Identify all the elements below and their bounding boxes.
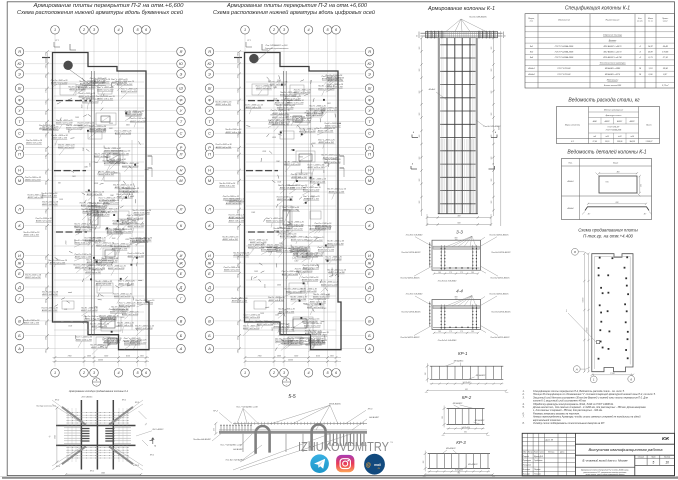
svg-text:238,96: 238,96 — [616, 141, 622, 143]
svg-text:3000: 3000 — [132, 221, 136, 223]
svg-text:А500С №8 ш.150: А500С №8 ш.150 — [278, 329, 295, 332]
svg-text:Сборочные единицы: Сборочные единицы — [603, 34, 623, 37]
svg-text:В: В — [368, 319, 371, 323]
svg-text:А500С №10 ш.200: А500С №10 ш.200 — [107, 267, 125, 270]
svg-text:Ж: Ж — [17, 262, 22, 266]
svg-text:А: А — [575, 367, 578, 371]
svg-text:И: И — [18, 254, 21, 258]
svg-text:5000: 5000 — [294, 356, 298, 358]
svg-text:165: 165 — [471, 331, 474, 333]
svg-text:180: 180 — [425, 372, 427, 375]
svg-text:КЖ: КЖ — [662, 436, 670, 441]
svg-text:5000: 5000 — [104, 356, 108, 358]
svg-text:А500С №8 ш.150: А500С №8 ш.150 — [24, 276, 41, 279]
svg-text:А500С №8 ш.150: А500С №8 ш.150 — [268, 299, 285, 302]
svg-text:Ф: Ф — [208, 99, 211, 103]
svg-text:200: 200 — [419, 201, 421, 205]
svg-text:1500: 1500 — [312, 143, 316, 145]
svg-text:поз.: поз. — [530, 21, 534, 23]
svg-text:1240: 1240 — [84, 166, 88, 169]
svg-text:1780: 1780 — [45, 256, 47, 260]
svg-text:А500С №12 ш.150: А500С №12 ш.150 — [289, 187, 307, 190]
svg-text:1780: 1780 — [237, 288, 239, 292]
svg-text:Я: Я — [207, 50, 211, 54]
svg-text:ГОСТ Р-52544-2006: ГОСТ Р-52544-2006 — [606, 128, 622, 131]
svg-text:500: 500 — [77, 230, 80, 232]
svg-text:П: П — [368, 153, 371, 157]
svg-text:200: 200 — [491, 113, 493, 117]
svg-text:А500С №8 ш.150: А500С №8 ш.150 — [223, 269, 240, 272]
svg-text:А500С №10 ш.200: А500С №10 ш.200 — [65, 127, 83, 130]
svg-text:А240: А240 — [592, 120, 597, 123]
svg-text:Э: Э — [208, 72, 211, 76]
svg-text:3800: 3800 — [237, 148, 239, 152]
svg-text:Армирование колонны К-1: Армирование колонны К-1 — [427, 6, 495, 12]
svg-text:Горбатов: Горбатов — [534, 460, 542, 462]
svg-text:14,87: 14,87 — [648, 45, 654, 48]
svg-text:4: 4 — [117, 28, 119, 32]
svg-text:А500С №8 ш.150: А500С №8 ш.150 — [23, 234, 40, 237]
svg-text:Н: Н — [368, 169, 371, 173]
svg-text:А500С №8 ш.150: А500С №8 ш.150 — [314, 227, 331, 230]
svg-text:3000: 3000 — [126, 125, 130, 127]
svg-text:18,96: 18,96 — [663, 68, 669, 70]
svg-text:А500С №8 ш.150: А500С №8 ш.150 — [272, 112, 289, 115]
svg-text:3000: 3000 — [116, 326, 120, 328]
svg-text:чание: чание — [663, 21, 668, 23]
svg-text:2000: 2000 — [332, 268, 334, 273]
svg-text:Ю: Ю — [208, 62, 212, 66]
svg-text:Укладку сеток поддерживать отн: Укладку сеток поддерживать относительным… — [533, 422, 606, 425]
svg-text:Э: Э — [180, 72, 183, 76]
svg-text:А500С №12 ш.150: А500С №12 ш.150 — [242, 327, 260, 330]
svg-text:ГОСТ Р-52544-2006: ГОСТ Р-52544-2006 — [555, 56, 574, 59]
svg-text:А500С №8 ш.150: А500С №8 ш.150 — [215, 103, 232, 106]
svg-text:А500С №12 ш.150: А500С №12 ш.150 — [302, 267, 320, 270]
svg-text:КР-1: КР-1 — [90, 471, 94, 473]
svg-text:Усиление продавливания: Усиление продавливания — [265, 47, 290, 50]
svg-text:Схема продавливания плиты: Схема продавливания плиты — [578, 227, 638, 232]
svg-text:А500С №8 ш.150: А500С №8 ш.150 — [97, 98, 114, 101]
svg-text:КР-3: КР-3 — [456, 440, 466, 445]
svg-text:8п1: 8п1 — [530, 46, 533, 48]
svg-text:3800: 3800 — [237, 52, 239, 56]
svg-text:Наименование: Наименование — [606, 20, 621, 22]
svg-text:Ю: Ю — [368, 62, 372, 66]
svg-text:Схема расположения нижней арма: Схема расположения нижней арматуры вдоль… — [213, 9, 375, 16]
svg-text:А500С №12 ш.150: А500С №12 ш.150 — [326, 242, 344, 245]
svg-text:Д: Д — [367, 285, 371, 289]
svg-text:180: 180 — [442, 416, 444, 419]
svg-text:№12: №12 — [605, 135, 609, 138]
svg-text:Лист: Лист — [533, 452, 539, 454]
svg-text:Л: Л — [179, 208, 183, 212]
svg-text:А500С №8 ш.150: А500С №8 ш.150 — [228, 216, 245, 219]
svg-text:А500С №8 ш.150: А500С №8 ш.150 — [309, 180, 326, 183]
svg-text:-: - — [286, 383, 287, 387]
svg-text:А500С №10 ш.200: А500С №10 ш.200 — [290, 238, 308, 241]
svg-text:во шт.: во шт. — [637, 21, 643, 23]
svg-text:Поз.1 Ø16А500С ш.150: Поз.1 Ø16А500С ш.150 — [266, 44, 289, 47]
svg-text:2600: 2600 — [45, 226, 47, 231]
svg-text:3040: 3040 — [236, 181, 239, 185]
svg-text:3000: 3000 — [117, 339, 119, 343]
svg-text:Дипл. ЗК: Дипл. ЗК — [545, 439, 554, 441]
svg-text:180: 180 — [423, 461, 425, 464]
svg-text:Д: Д — [179, 285, 183, 289]
svg-text:Дата: Дата — [559, 452, 564, 454]
svg-text:40х8п1: 40х8п1 — [567, 180, 573, 183]
svg-text:Ø№8 А240С: Ø№8 А240С — [328, 402, 341, 405]
svg-text:200: 200 — [419, 157, 421, 161]
svg-text:200: 200 — [491, 69, 493, 73]
svg-text:600: 600 — [458, 223, 461, 225]
svg-text:165: 165 — [438, 331, 441, 333]
svg-text:25,16: 25,16 — [604, 141, 609, 143]
svg-text:А500С №10 ш.200: А500С №10 ш.200 — [298, 130, 316, 133]
svg-text:Поз.Вкл№8 А240С: Поз.Вкл№8 А240С — [193, 438, 212, 441]
svg-text:2000: 2000 — [265, 284, 267, 289]
svg-text:А500С №8 ш.150: А500С №8 ш.150 — [85, 271, 102, 274]
svg-text:ГОСТ 5781-82: ГОСТ 5781-82 — [557, 68, 571, 70]
svg-text:200: 200 — [491, 157, 493, 161]
svg-text:Поз.8х1 Ø8 А240С: Поз.8х1 Ø8 А240С — [483, 125, 501, 128]
svg-text:1500: 1500 — [112, 238, 116, 240]
svg-text:1240: 1240 — [304, 303, 308, 306]
svg-text:1500: 1500 — [68, 325, 72, 327]
svg-text:А500С №12 ш.150: А500С №12 ш.150 — [283, 342, 301, 345]
svg-text:200: 200 — [419, 179, 421, 183]
svg-text:В.-этажный жилой дом в г. Моск: В.-этажный жилой дом в г. Москве — [583, 460, 629, 463]
svg-text:А500С №8 ш.150: А500С №8 ш.150 — [51, 137, 68, 140]
svg-text:3040: 3040 — [44, 210, 47, 214]
svg-text:1780: 1780 — [237, 226, 239, 230]
svg-text:А500С №12 ш.150: А500С №12 ш.150 — [90, 346, 108, 349]
svg-text:23500: 23500 — [97, 360, 103, 362]
svg-text:А500С №12 ш.150: А500С №12 ш.150 — [96, 89, 114, 92]
svg-text:И: И — [368, 254, 371, 258]
svg-text:1240: 1240 — [88, 163, 91, 167]
svg-text:50: 50 — [417, 35, 419, 37]
svg-text:500: 500 — [103, 130, 106, 132]
svg-text:Поз.8п1 №8 А240: Поз.8п1 №8 А240 — [406, 233, 423, 236]
svg-text:А500С №10 ш.200: А500С №10 ш.200 — [136, 302, 154, 305]
svg-text:1240: 1240 — [290, 245, 293, 249]
svg-text:2600: 2600 — [237, 336, 239, 341]
svg-text:А500С №12 ш.150: А500С №12 ш.150 — [100, 260, 118, 263]
svg-text:Приме-: Приме- — [662, 18, 669, 20]
svg-text:Э: Э — [368, 72, 371, 76]
svg-text:А500С №8 ш.150: А500С №8 ш.150 — [49, 262, 66, 265]
svg-text:1240: 1240 — [294, 259, 298, 262]
svg-text:Ø8 А240 L=1880: Ø8 А240 L=1880 — [604, 67, 621, 70]
svg-text:7.: 7. — [523, 416, 525, 419]
svg-text:Поз.8х2 4Ø12 А500С: Поз.8х2 4Ø12 А500С — [400, 277, 420, 280]
svg-text:А500С №8 ш.150: А500С №8 ш.150 — [95, 282, 112, 285]
svg-text:№12: №12 — [618, 135, 622, 138]
svg-text:Ø16 А500С L=3970: Ø16 А500С L=3970 — [603, 45, 623, 48]
svg-text:Армирование плиты перекрытия П: Армирование плиты перекрытия П-2 на отм.… — [32, 3, 184, 9]
svg-text:Пермяк: Пермяк — [534, 469, 540, 471]
svg-text:1240: 1240 — [93, 306, 97, 309]
svg-text:630: 630 — [616, 202, 619, 204]
svg-text:9х100=900: 9х100=900 — [463, 382, 471, 384]
svg-text:160: 160 — [641, 184, 643, 187]
svg-text:2000: 2000 — [261, 151, 266, 153]
svg-text:2000: 2000 — [124, 239, 129, 241]
svg-text:А500С №10 ш.200: А500С №10 ш.200 — [320, 283, 338, 286]
svg-text:1500: 1500 — [75, 117, 79, 119]
svg-text:Л: Л — [367, 208, 371, 212]
svg-text:4150: 4150 — [316, 355, 320, 358]
svg-text:Поз.8х2 4Ø12 А500С: Поз.8х2 4Ø12 А500С — [490, 336, 510, 339]
svg-text:А500С №10 ш.200: А500С №10 ш.200 — [243, 316, 261, 319]
svg-text:851: 851 — [465, 389, 468, 391]
svg-text:№8 А240С: №8 А240С — [233, 448, 244, 451]
svg-text:2000: 2000 — [69, 129, 71, 134]
svg-text:А500С №8 ш.150: А500С №8 ш.150 — [318, 141, 335, 144]
svg-text:А500С №8 ш.150: А500С №8 ш.150 — [41, 203, 58, 206]
svg-text:Бетон класса В30: Бетон класса В30 — [604, 85, 622, 87]
svg-text:А500С №8 ш.150: А500С №8 ш.150 — [292, 253, 309, 256]
svg-text:5400: 5400 — [44, 101, 47, 105]
svg-text:А500С №10 ш.200: А500С №10 ш.200 — [103, 162, 121, 165]
svg-text:А500С №12 ш.150: А500С №12 ш.150 — [113, 295, 131, 298]
svg-text:500: 500 — [88, 220, 91, 222]
svg-text:170: 170 — [449, 331, 452, 333]
svg-text:1500: 1500 — [260, 313, 264, 315]
svg-text:200: 200 — [213, 428, 215, 432]
svg-text:8.: 8. — [523, 422, 525, 425]
svg-text:А500С №12 ш.150: А500С №12 ш.150 — [135, 327, 153, 330]
svg-text:1640: 1640 — [54, 435, 57, 439]
svg-text:10: 10 — [665, 460, 669, 464]
svg-text:1500: 1500 — [72, 176, 76, 178]
svg-text:Н: Н — [180, 169, 183, 173]
svg-text:Разраб.: Разраб. — [523, 456, 530, 458]
svg-text:А500С №8 ш.150: А500С №8 ш.150 — [24, 179, 41, 182]
svg-text:А500С №10 ш.200: А500С №10 ш.200 — [127, 225, 145, 228]
svg-text:-: - — [96, 383, 97, 387]
svg-text:А500С №8 ш.150: А500С №8 ш.150 — [41, 195, 58, 198]
svg-text:Поз.8п3 2Ø16 А500С: Поз.8п3 2Ø16 А500С — [491, 311, 511, 314]
svg-text:К-1: К-1 — [571, 141, 574, 143]
svg-text:1240: 1240 — [90, 94, 93, 98]
svg-text:Поз.: Поз. — [568, 162, 572, 164]
svg-text:А500С №10 ш.200: А500С №10 ш.200 — [92, 214, 110, 217]
svg-text:500: 500 — [104, 145, 106, 148]
svg-text:2КЛ. А500С: 2КЛ. А500С — [81, 396, 93, 399]
svg-text:1240: 1240 — [273, 86, 277, 89]
svg-text:500: 500 — [74, 240, 76, 243]
svg-text:1240: 1240 — [110, 194, 114, 197]
svg-text:2600: 2600 — [237, 64, 239, 69]
svg-text:170: 170 — [460, 331, 463, 333]
svg-text:4150: 4150 — [126, 355, 130, 358]
svg-text:Лист: Лист — [650, 456, 656, 458]
svg-text:А500С №8 ш.150: А500С №8 ш.150 — [285, 290, 302, 293]
svg-text:7950: 7950 — [258, 356, 262, 358]
svg-text:200: 200 — [419, 91, 421, 95]
svg-text:А500С №10 ш.200: А500С №10 ш.200 — [121, 165, 139, 168]
svg-text:Стадия: Стадия — [638, 455, 644, 458]
svg-text:Арматура класса: Арматура класса — [605, 114, 622, 117]
svg-text:А500С №8 ш.150: А500С №8 ш.150 — [42, 128, 59, 131]
svg-text:Поз.8х2 4Ø12 А500С: Поз.8х2 4Ø12 А500С — [490, 277, 510, 280]
svg-text:200: 200 — [419, 69, 421, 73]
svg-text:А500С №8 ш.150: А500С №8 ш.150 — [228, 200, 245, 203]
svg-text:851: 851 — [458, 473, 461, 475]
svg-text:500: 500 — [298, 177, 301, 179]
svg-text:3800: 3800 — [45, 264, 47, 268]
svg-text:П: П — [180, 153, 183, 157]
svg-text:Поз.8п2 2Ø16 А500С: Поз.8п2 2Ø16 А500С — [401, 311, 421, 314]
svg-text:Жуков Д.В.: Жуков Д.В. — [533, 456, 544, 458]
svg-text:А500С №8 ш.150: А500С №8 ш.150 — [91, 325, 108, 328]
svg-text:Зав.каф.: Зав.каф. — [523, 473, 531, 476]
svg-text:А500С №8 ш.150: А500С №8 ш.150 — [86, 261, 103, 264]
svg-text:Ф: Ф — [18, 99, 21, 103]
svg-text:3-3: 3-3 — [456, 229, 463, 234]
svg-text:А500С №10 ш.200: А500С №10 ш.200 — [276, 106, 294, 109]
svg-text:Поз.8х2 4Ø12 А500С: Поз.8х2 4Ø12 А500С — [400, 336, 420, 339]
svg-text:Я: Я — [179, 50, 183, 54]
svg-text:2000: 2000 — [66, 241, 68, 246]
svg-text:1900: 1900 — [140, 356, 144, 358]
svg-text:2980: 2980 — [237, 349, 239, 354]
svg-text:4: 4 — [307, 371, 309, 375]
svg-text:УГ1: УГ1 — [55, 40, 58, 42]
svg-text:5400: 5400 — [236, 89, 239, 93]
svg-text:А500С №8 ш.150: А500С №8 ш.150 — [301, 320, 318, 323]
svg-text:ГОСТ Р-52544-2006: ГОСТ Р-52544-2006 — [555, 50, 574, 53]
svg-text:Контур колонны К-1: Контур колонны К-1 — [36, 406, 55, 408]
svg-text:А500С: А500С — [616, 120, 623, 123]
svg-text:2000: 2000 — [326, 103, 331, 105]
svg-text:2000: 2000 — [281, 309, 286, 311]
svg-text:3000: 3000 — [114, 173, 118, 175]
svg-text:1780: 1780 — [45, 155, 47, 159]
svg-text:А500С №8 ш.150: А500С №8 ш.150 — [111, 248, 128, 251]
svg-text:А500С №8 ш.150: А500С №8 ш.150 — [290, 298, 307, 301]
svg-text:400: 400 — [458, 215, 461, 218]
svg-text:1240: 1240 — [275, 314, 279, 317]
svg-text:1240: 1240 — [277, 79, 281, 82]
svg-text:А500С №10 ш.200: А500С №10 ш.200 — [286, 223, 304, 226]
svg-text:Спецификация колонны К-1: Спецификация колонны К-1 — [565, 5, 630, 11]
svg-text:1240: 1240 — [321, 111, 324, 115]
svg-text:Поз.8х1 Ø8 А240С: Поз.8х1 Ø8 А240С — [469, 16, 487, 19]
svg-text:45°: 45° — [588, 213, 591, 216]
svg-text:3.: 3. — [523, 396, 525, 399]
svg-text:27,45: 27,45 — [592, 140, 597, 143]
svg-text:А500С №12 ш.150: А500С №12 ш.150 — [103, 149, 121, 152]
svg-text:1500: 1500 — [307, 198, 311, 200]
svg-text:170: 170 — [460, 272, 463, 274]
svg-text:Изделия арматурные: Изделия арматурные — [604, 108, 623, 111]
svg-text:А500С №12 ш.150: А500С №12 ш.150 — [325, 86, 343, 89]
svg-text:А500С №10 ш.200: А500С №10 ш.200 — [127, 255, 145, 258]
svg-text:Ж: Ж — [367, 262, 372, 266]
svg-text:50: 50 — [505, 35, 507, 37]
svg-text:2,72 м³: 2,72 м³ — [661, 84, 669, 87]
svg-text:2980: 2980 — [45, 171, 47, 176]
svg-text:1900: 1900 — [330, 356, 334, 358]
svg-text:2600: 2600 — [237, 321, 239, 326]
svg-text:А: А — [179, 347, 183, 351]
svg-text:А500С №8 ш.150: А500С №8 ш.150 — [233, 254, 250, 257]
svg-text:А500С №10 ш.200: А500С №10 ш.200 — [321, 78, 339, 81]
svg-text:ед. кг: ед. кг — [648, 20, 653, 23]
svg-text:5400: 5400 — [236, 274, 239, 278]
svg-text:3000: 3000 — [272, 137, 276, 139]
svg-text:А500С №12 ш.150: А500С №12 ш.150 — [80, 309, 98, 312]
svg-text:Марка элемента: Марка элемента — [565, 125, 580, 127]
svg-text:Ø12 А500С L=2170: Ø12 А500С L=2170 — [603, 50, 623, 53]
svg-text:ГОСТ Р-52544-2006: ГОСТ Р-52544-2006 — [555, 45, 574, 48]
svg-text:200: 200 — [491, 91, 493, 95]
svg-text:А500С №8 ш.150: А500С №8 ш.150 — [86, 193, 103, 196]
svg-text:1.256,87: 1.256,87 — [646, 141, 654, 143]
svg-text:1: 1 — [54, 371, 56, 375]
svg-text:А500С №12 ш.150: А500С №12 ш.150 — [114, 132, 132, 135]
svg-text:178,96: 178,96 — [662, 51, 669, 53]
svg-text:3040: 3040 — [44, 274, 47, 278]
svg-text:№8: №8 — [593, 135, 596, 138]
svg-text:3000: 3000 — [276, 340, 278, 344]
svg-text:Р: Р — [208, 146, 211, 150]
svg-text:1500: 1500 — [254, 271, 258, 273]
svg-text:А500С №8 ш.150: А500С №8 ш.150 — [231, 300, 248, 303]
svg-text:1780: 1780 — [237, 122, 239, 126]
svg-text:964,28: 964,28 — [630, 140, 635, 143]
svg-text:А500С: А500С — [604, 120, 611, 123]
svg-text:4: 4 — [117, 371, 119, 375]
svg-text:5400: 5400 — [44, 148, 47, 152]
svg-text:1240: 1240 — [82, 147, 85, 151]
svg-text:Поз.7 №8 А240С ш.80: Поз.7 №8 А240С ш.80 — [236, 406, 258, 409]
svg-text:Поз.8п3 2Ø16 А500С: Поз.8п3 2Ø16 А500С — [491, 251, 511, 254]
svg-text:63000: 63000 — [582, 298, 584, 303]
svg-text:R15: R15 — [605, 182, 608, 184]
svg-text:170: 170 — [449, 272, 452, 274]
svg-text:А500С №10 ш.200: А500С №10 ш.200 — [121, 313, 139, 316]
svg-text:500: 500 — [268, 80, 271, 82]
svg-text:165: 165 — [471, 272, 474, 274]
svg-text:КР-1: КР-1 — [458, 351, 468, 356]
svg-text:А500С №8 ш.150: А500С №8 ш.150 — [25, 142, 42, 145]
svg-text:А500С №12 ш.150: А500С №12 ш.150 — [84, 239, 102, 242]
svg-text:А500С №12 ш.150: А500С №12 ш.150 — [73, 225, 91, 228]
svg-text:5400: 5400 — [44, 181, 47, 185]
svg-text:А500С №8 ш.150: А500С №8 ш.150 — [228, 220, 245, 223]
svg-text:КР-1: КР-1 — [150, 455, 154, 457]
svg-text:Ø8 А240 L=1075: Ø8 А240 L=1075 — [604, 73, 621, 76]
svg-text:В: В — [180, 319, 183, 323]
svg-text:КР-1: КР-1 — [122, 399, 126, 401]
svg-text:2980: 2980 — [237, 171, 239, 176]
svg-text:А500С №8 ш.150: А500С №8 ш.150 — [114, 186, 131, 189]
svg-text:700: 700 — [455, 240, 458, 242]
svg-text:Н: Н — [208, 169, 211, 173]
svg-text:А500С №10 ш.200: А500С №10 ш.200 — [75, 338, 93, 341]
svg-text:А: А — [17, 347, 21, 351]
svg-text:А500С №8 ш.150: А500С №8 ш.150 — [41, 309, 58, 312]
svg-text:200: 200 — [419, 135, 421, 139]
svg-text:Е: Е — [368, 272, 371, 276]
svg-text:1780: 1780 — [45, 74, 47, 78]
svg-text:2000: 2000 — [87, 208, 89, 213]
